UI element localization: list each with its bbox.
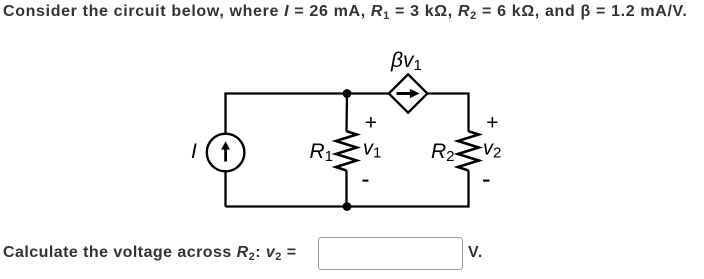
problem statement text [3, 3, 688, 21]
svg-text:+: + [365, 111, 377, 134]
unit label V. [468, 244, 483, 262]
label minus v1 [363, 180, 369, 182]
dependent source arrow [397, 89, 420, 98]
current source I (circle) [207, 134, 245, 172]
wire: R1 branch bottom [345, 171, 347, 207]
svg-text:v2: v2 [483, 138, 501, 162]
dependent source (diamond) [389, 74, 428, 112]
wire: left branch below current source [224, 172, 226, 207]
svg-text:R1: R1 [310, 140, 334, 165]
wire: bottom rail [226, 171, 469, 207]
label minus v2 [483, 180, 489, 182]
current source arrow [221, 141, 230, 161]
svg-text:R2: R2 [431, 140, 455, 165]
svg-text:βv1: βv1 [390, 49, 422, 74]
resistor R1 (zigzag) [336, 131, 357, 170]
svg-text:v1: v1 [363, 138, 381, 162]
answer input box [318, 237, 463, 270]
node A (top junction dot) [343, 89, 352, 98]
svg-text:I: I [191, 140, 197, 163]
svg-text:+: + [486, 111, 498, 134]
resistor R2 (zigzag) [458, 131, 479, 170]
answer prompt text [3, 244, 297, 262]
wire: top left horizontal (node A to current source top) [226, 94, 348, 134]
wire: dependent source to top right corner, down to R2 [428, 94, 469, 132]
wire: R1 branch top [345, 94, 348, 132]
wire: top right from node A to dependent source [347, 92, 389, 94]
node B (bottom junction dot) [343, 202, 352, 211]
